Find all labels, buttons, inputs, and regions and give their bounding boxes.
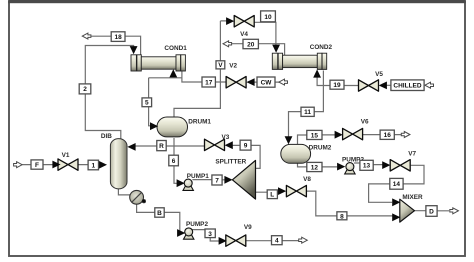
arrow into DRUM1 [150,122,158,130]
node 12 [307,162,322,171]
open arrow stream 20 [223,41,232,47]
svg-text:15: 15 [311,132,319,139]
svg-text:7: 7 [215,177,219,184]
valve V4 [234,16,254,27]
svg-text:F: F [35,162,39,169]
wire stream 12: DRUM2 to PUMP3 [298,162,338,167]
svg-text:4: 4 [275,238,279,245]
svg-text:L: L [270,192,274,199]
valve V3 [205,139,225,150]
valve V7 [390,160,410,171]
arrow into mixer bottom [392,213,400,221]
arrow into COND1 bottom [169,69,177,77]
wire stream 18: COND1 top to exit arrow [91,36,141,54]
wire stream B: reboiler to PUMP2 [137,204,180,233]
wire stream 11: COND2 to DRUM2 [289,71,324,137]
node 2 [79,84,91,94]
node CW [257,77,275,87]
valve V8 [286,185,306,196]
node 13 [360,160,373,170]
arrow into column feed [99,161,107,169]
arrow into COND2 top [272,45,280,53]
svg-text:DIB: DIB [101,133,112,140]
wire stream 13: PUMP3 to V7 [354,163,383,165]
svg-text:V7: V7 [408,150,416,157]
arrow into COND2 bottom [313,69,321,77]
svg-text:V3: V3 [221,134,229,141]
svg-text:V9: V9 [244,224,252,231]
wire stream 10: V4 to COND2 [254,22,276,46]
svg-text:SPLITTER: SPLITTER [215,159,246,166]
valve V1 [58,159,78,170]
svg-text:19: 19 [333,82,341,89]
arrow into column reflux [127,143,135,151]
valve V9 [226,235,246,246]
wire stream CW to V2 [254,81,280,83]
svg-text:13: 13 [363,163,371,170]
arrow into V7 [382,161,390,169]
node 9 [240,140,251,150]
node V [216,61,225,69]
svg-text:PUMP2: PUMP2 [186,221,208,228]
mixer MIXER [400,199,415,222]
node 3 [205,229,215,238]
wire stream 9: splitter to V3 [232,145,261,168]
svg-text:V6: V6 [361,119,369,126]
arrow into mixer top [392,198,400,206]
pump PUMP3 [345,163,355,174]
svg-text:8: 8 [340,213,344,220]
open arrow stream D [450,208,459,214]
wire stream V: DRUM1 top to V4 [174,21,227,118]
svg-text:CHILLED: CHILLED [393,83,421,90]
top bar [8,0,466,3]
node 17 [202,77,215,87]
svg-text:16: 16 [384,132,392,139]
arrow into V9 [219,237,227,245]
valve V5 [359,80,379,91]
node 1 [88,160,98,170]
wire stream L: splitter to V8 [256,191,280,193]
svg-text:12: 12 [311,164,319,171]
arrow into V2 [246,78,254,86]
wire stream 19: CHILLED to V5 to COND2 [317,76,391,86]
wire stream 16: V6 to exit [363,134,401,136]
svg-text:1: 1 [91,162,95,169]
svg-text:R: R [159,143,164,150]
wire stream 5+17 under COND1 [149,70,227,82]
svg-text:V1: V1 [62,152,70,159]
arrow into PUMP3 [337,163,345,171]
svg-text:10: 10 [264,14,272,21]
node 11 [301,107,314,116]
arrow into V4 [226,17,234,25]
wire column bottom to reboiler [118,188,130,195]
node 19 [330,80,344,89]
svg-text:2: 2 [83,86,87,93]
node 7 [212,175,222,185]
splitter SPLITTER [232,160,255,199]
svg-text:6: 6 [172,158,176,165]
svg-text:COND2: COND2 [310,44,333,51]
svg-text:20: 20 [247,41,255,48]
wire stream D: mixer to exit [415,210,450,212]
node 18 [111,32,125,42]
wire stream 4: V9 to exit [246,240,299,242]
svg-text:V2: V2 [229,62,237,69]
wire stream F: feed to column [22,164,100,166]
drum DRUM2 [281,144,311,163]
arrow into V3 [225,141,233,149]
wire stream 20: COND2 top to exit [231,44,285,56]
node 6 [169,155,179,166]
svg-text:18: 18 [114,34,122,41]
wire stream 7: PUMP1 to splitter [192,179,225,181]
svg-text:MIXER: MIXER [402,194,423,201]
node 16 [380,130,394,139]
drum DRUM1 [157,117,188,137]
open arrow stream 16 [401,132,410,138]
node CHILLED [391,80,424,91]
node D [426,206,437,217]
arrow into V6 [335,131,343,139]
arrow into DRUM2 [285,136,293,144]
svg-text:17: 17 [205,79,213,86]
wire stream 2: column top to COND1 inlet [85,46,133,140]
wire stream 14: V7 to mixer [369,165,424,202]
svg-text:11: 11 [304,109,311,116]
arrow into PUMP2 [177,229,185,237]
node 20 [243,39,258,48]
svg-text:3: 3 [208,231,212,238]
wire stream R: V3 to column [136,145,205,147]
open arrow stream 18 [82,33,91,39]
arrow into V5 [379,82,387,90]
svg-text:CW: CW [261,80,273,87]
wire stream 3: PUMP2 to V9 [191,230,219,241]
arrow into V1 [52,161,60,169]
svg-text:9: 9 [244,143,248,150]
wire stream 8: V8 to mixer [307,191,393,217]
svg-text:DRUM1: DRUM1 [188,119,211,126]
svg-text:COND1: COND1 [164,45,187,52]
reboiler circle [130,190,146,204]
wire stream 6: DRUM1 to PUMP1 [174,138,178,183]
node 5 [142,98,152,107]
condenser COND1 [131,55,185,71]
svg-text:PUMP1: PUMP1 [187,173,209,180]
condenser COND2 [272,53,326,69]
node L [267,190,277,199]
open arrow feed F [14,162,23,168]
svg-text:B: B [157,210,162,217]
node 15 [307,130,322,139]
arrow into COND1 top [130,46,138,54]
pump PUMP2 [184,228,194,239]
arrow into PUMP1 [177,179,185,187]
svg-text:DRUM2: DRUM2 [309,144,332,151]
pump PUMP1 [183,179,193,190]
valve V2 [226,77,246,88]
node 8 [337,212,347,221]
open arrow CW source [279,79,288,85]
open arrow stream 4 [299,237,308,243]
svg-text:V: V [218,62,223,69]
node 14 [390,178,403,189]
wire stream 5 vertical to DRUM1 [149,78,151,126]
node B [155,208,164,217]
node R [157,141,166,151]
open arrow CHILLED source [425,82,434,88]
node 4 [272,236,283,245]
svg-text:D: D [429,209,434,216]
DIB column [110,139,127,189]
svg-text:V4: V4 [240,31,248,38]
node 10 [261,11,276,22]
svg-text:V8: V8 [303,176,311,183]
valve V6 [343,128,363,139]
svg-text:14: 14 [393,181,401,188]
arrow into splitter [224,176,232,184]
arrow into V8 [278,187,286,195]
svg-text:V5: V5 [375,71,383,78]
node F [31,160,43,169]
wire stream 15: DRUM2 to V6 [298,135,337,145]
svg-text:5: 5 [145,100,149,107]
